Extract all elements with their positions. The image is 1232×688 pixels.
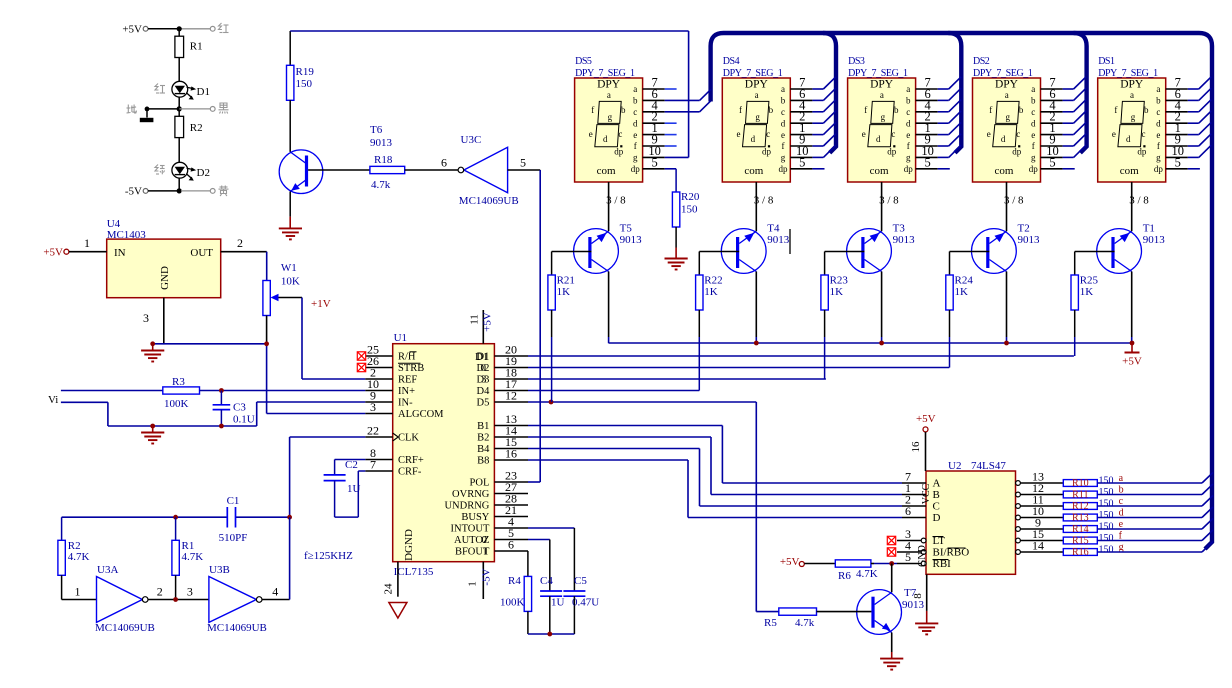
wire +5V rail — [609, 342, 1132, 344]
svg-text:C3: C3 — [233, 402, 246, 414]
wire — [178, 178, 180, 191]
svg-text:f: f — [864, 105, 867, 115]
svg-text:D2: D2 — [197, 167, 210, 179]
pin 10 — [1041, 156, 1063, 158]
svg-text:dp: dp — [887, 147, 897, 157]
pin 20 D1 — [494, 355, 528, 357]
pin 14 B2 — [494, 436, 528, 438]
svg-text:d: d — [781, 118, 786, 128]
wire collector to rail — [1006, 272, 1008, 338]
svg-text:c: c — [633, 107, 637, 117]
no-connect pin 25 — [357, 352, 365, 360]
svg-text:3 / 8: 3 / 8 — [754, 195, 774, 207]
wire to bus — [1097, 551, 1202, 553]
transistor T6 9013 — [279, 150, 323, 194]
pin 7 — [790, 88, 812, 90]
svg-text:a: a — [1005, 90, 1009, 100]
resistor R1 — [178, 29, 180, 36]
label 红 at D1 — [155, 84, 158, 91]
IC U4 MC1403 — [107, 239, 221, 298]
pin 1 -5V stub — [482, 562, 484, 599]
svg-text:1: 1 — [467, 581, 479, 587]
svg-text:DGND: DGND — [403, 529, 415, 561]
U2 output e pin 9 — [1016, 527, 1021, 532]
node junction 黑 row — [177, 106, 182, 111]
svg-text:16: 16 — [505, 447, 517, 461]
svg-text:7: 7 — [370, 458, 376, 472]
no-connect pin 26 — [357, 363, 365, 371]
wire Vi+ — [61, 390, 163, 392]
wire base to D line — [698, 310, 700, 337]
wire com — [755, 182, 757, 231]
pin 1 — [916, 134, 938, 136]
pin 4 — [1166, 111, 1188, 113]
node junction RBI/R6/T7 — [889, 561, 894, 566]
svg-text:b: b — [621, 105, 626, 115]
svg-text:g: g — [1006, 112, 1011, 122]
svg-text:MC14069UB: MC14069UB — [207, 622, 267, 634]
pin 12 D5 — [494, 401, 528, 403]
pin 7 — [916, 88, 938, 90]
wire to bus — [1097, 517, 1202, 519]
pin 4 — [790, 111, 812, 113]
pin 8 CRF+ — [365, 459, 392, 461]
svg-text:b: b — [1019, 105, 1024, 115]
svg-text:c: c — [891, 129, 895, 139]
svg-text:e: e — [781, 130, 785, 140]
ground at Vi return — [150, 424, 155, 429]
svg-text:dp: dp — [1029, 164, 1039, 174]
svg-text:C: C — [933, 501, 940, 513]
svg-text:f: f — [591, 105, 594, 115]
svg-text:e: e — [589, 129, 593, 139]
svg-text:B4: B4 — [477, 444, 490, 455]
svg-text:9013: 9013 — [1143, 234, 1166, 246]
svg-text:b: b — [1156, 96, 1161, 106]
resistor R21 1K — [551, 252, 553, 276]
svg-text:150: 150 — [681, 204, 698, 216]
pin 10 IN+ — [365, 390, 392, 392]
earth ground triangle at pin 24 — [389, 603, 407, 619]
svg-text:CLK: CLK — [398, 433, 419, 444]
U2 pin 2 C — [902, 505, 926, 507]
svg-text:4.7k: 4.7k — [795, 617, 815, 629]
svg-text:9013: 9013 — [370, 137, 393, 149]
svg-text:14: 14 — [1032, 539, 1044, 553]
node junction +5V/R1 — [177, 26, 182, 31]
svg-text:dp: dp — [631, 164, 641, 174]
svg-text:1: 1 — [84, 236, 90, 250]
resistor R12 150 — [1063, 503, 1097, 510]
pin 4 — [916, 111, 938, 113]
svg-text:4.7K: 4.7K — [68, 551, 90, 563]
svg-text:R14: R14 — [1072, 524, 1089, 535]
svg-text:6: 6 — [441, 156, 447, 170]
svg-text:9013: 9013 — [1018, 234, 1041, 246]
svg-text:R5: R5 — [764, 617, 777, 629]
svg-text:dp: dp — [1154, 164, 1164, 174]
resistor R22 1K — [698, 252, 700, 276]
svg-text:T3: T3 — [893, 223, 906, 235]
terminal 红 (red) — [181, 28, 210, 30]
power +5V symbol — [1131, 343, 1133, 353]
svg-text:g: g — [781, 153, 786, 163]
pin 3 ALGCOM — [365, 413, 392, 415]
svg-text:150: 150 — [1099, 476, 1114, 487]
pin 9 — [790, 145, 812, 147]
pin 2 — [916, 122, 938, 124]
svg-text:2: 2 — [237, 236, 243, 250]
svg-text:dp: dp — [762, 147, 772, 157]
ground at U2 pin 8 — [915, 622, 938, 624]
pin 5 — [790, 168, 812, 170]
pin 5 — [1166, 168, 1188, 170]
svg-text:IN+: IN+ — [398, 386, 415, 397]
svg-text:DPY_7_SEG_1: DPY_7_SEG_1 — [848, 68, 908, 79]
svg-text:a: a — [906, 84, 910, 94]
svg-text:74LS47: 74LS47 — [971, 460, 1006, 472]
capacitor C4 1U — [540, 590, 562, 592]
node junction W1 bottom — [266, 316, 268, 344]
svg-text:g: g — [881, 112, 886, 122]
resistor R14 150 — [1063, 526, 1097, 533]
svg-text:+5V: +5V — [43, 247, 63, 259]
capacitor C1 510PF — [226, 507, 228, 528]
svg-text:R13: R13 — [1072, 513, 1089, 524]
svg-text:+5V: +5V — [780, 556, 800, 568]
U2 pin 3 LT — [921, 538, 926, 543]
svg-text:GND: GND — [917, 545, 928, 567]
svg-text:R1: R1 — [190, 41, 203, 53]
pin 4 — [1041, 111, 1063, 113]
display DS3 DPY_7_SEG_1 — [848, 78, 916, 182]
wire CLK — [290, 436, 366, 438]
svg-text:3 / 8: 3 / 8 — [1004, 195, 1024, 207]
svg-text:U3A: U3A — [97, 564, 118, 576]
svg-text:A: A — [933, 478, 941, 490]
pin 9 — [1041, 145, 1063, 147]
svg-text:9013: 9013 — [893, 234, 916, 246]
svg-text:a: a — [781, 84, 785, 94]
resistor R2 — [175, 116, 184, 137]
svg-text:100K: 100K — [164, 398, 189, 410]
svg-text:5: 5 — [1175, 155, 1181, 169]
pin 6 — [1166, 99, 1188, 101]
resistor R15 150 — [1063, 537, 1097, 544]
wire U3B out feedback — [262, 599, 290, 601]
DS5 pin 9 — [643, 145, 665, 147]
wire D1 net — [528, 355, 1074, 357]
pin 11 +5V stub — [482, 310, 484, 344]
transistor T2 9013 — [972, 229, 1017, 274]
svg-text:R22: R22 — [704, 275, 722, 287]
svg-text:BUSY: BUSY — [461, 512, 489, 523]
svg-text:OVRNG: OVRNG — [452, 489, 490, 500]
node junction T4 — [754, 341, 759, 346]
svg-text:R20: R20 — [681, 191, 700, 203]
svg-text:c: c — [1156, 107, 1160, 117]
svg-text:f: f — [1157, 141, 1160, 151]
pin 10 — [790, 156, 812, 158]
svg-text:INTOUT: INTOUT — [451, 524, 490, 535]
inverter U3A MC14069UB — [97, 577, 143, 623]
svg-text:R11: R11 — [1072, 490, 1088, 501]
svg-text:3: 3 — [481, 374, 487, 386]
svg-text:U2: U2 — [948, 460, 961, 472]
wire Vi- — [61, 401, 108, 403]
U2 pin 8 GND wire — [926, 574, 928, 611]
svg-text:150: 150 — [1099, 510, 1114, 521]
svg-text:22: 22 — [367, 424, 379, 438]
wire — [178, 138, 180, 163]
DS5 pin 10 — [643, 156, 665, 158]
wire IN- — [257, 401, 366, 403]
svg-text:c: c — [766, 129, 770, 139]
wire D3 net — [528, 378, 826, 380]
svg-text:3: 3 — [143, 311, 149, 325]
svg-text:1K: 1K — [557, 286, 571, 298]
wire AUTOZ to C4 — [528, 539, 550, 541]
U2 pin 6 D — [902, 517, 926, 519]
U2 pin 4 BI/RBO — [921, 550, 926, 555]
U2 pin 5 RBI — [921, 561, 926, 566]
svg-text:e: e — [987, 129, 991, 139]
svg-text:b: b — [1144, 105, 1149, 115]
wire collector to rail — [1131, 272, 1133, 338]
DS5 stub d — [665, 122, 677, 124]
wire B4 to C — [528, 448, 700, 450]
U2 output b pin 12 — [1016, 492, 1021, 497]
node junction T3 — [879, 341, 884, 346]
DS5 pin 7 — [643, 88, 665, 90]
svg-text:REF: REF — [398, 375, 417, 386]
wire base to D line — [551, 310, 553, 337]
svg-text:f: f — [739, 105, 742, 115]
pin 16 B8 — [494, 459, 528, 461]
svg-text:com: com — [870, 165, 889, 177]
svg-text:R10: R10 — [1072, 478, 1089, 489]
svg-text:b: b — [906, 96, 911, 106]
wire R5 to T7 base — [817, 611, 872, 613]
svg-text:a: a — [755, 90, 759, 100]
svg-text:ALGCOM: ALGCOM — [398, 409, 444, 420]
svg-text:d: d — [1126, 134, 1131, 144]
svg-text:g: g — [906, 153, 911, 163]
bus main — [711, 33, 1212, 549]
resistor R11 150 — [1063, 491, 1097, 498]
wire D4 net — [528, 390, 699, 392]
wire D2 net — [528, 367, 949, 369]
svg-text:B: B — [933, 489, 940, 501]
pin 27 OVRNG — [494, 493, 528, 495]
capacitor C2 1U — [335, 459, 366, 461]
clock symbol on CLK — [393, 433, 399, 441]
svg-text:100K: 100K — [500, 597, 525, 609]
svg-text:0: 0 — [482, 534, 488, 546]
svg-text:2: 2 — [157, 585, 163, 599]
svg-text:c: c — [1016, 129, 1020, 139]
svg-text:dp: dp — [614, 147, 624, 157]
DS5 stub a — [665, 88, 677, 90]
ground rail under U4 — [153, 343, 268, 345]
wire R18 to U3C — [405, 169, 458, 171]
bus drop — [948, 33, 961, 153]
inverter U3C MC14069UB — [464, 147, 508, 192]
wire ALGCOM — [267, 413, 366, 415]
svg-text:e: e — [1031, 130, 1035, 140]
svg-text:0.1U: 0.1U — [233, 414, 255, 426]
svg-text:DS2: DS2 — [973, 56, 990, 67]
svg-text:MC14069UB: MC14069UB — [459, 195, 519, 207]
resistor R1 4.7K — [175, 517, 177, 540]
wire oscillator top rail — [62, 516, 228, 518]
svg-text:dp: dp — [1012, 147, 1022, 157]
label 红 top right — [219, 23, 222, 30]
pin 2 wire to W1 — [221, 251, 267, 253]
svg-text:C4: C4 — [540, 575, 553, 587]
pin 1 — [1041, 134, 1063, 136]
svg-text:3: 3 — [187, 585, 193, 599]
stray mark — [789, 229, 791, 254]
node junction R1 bottom — [173, 597, 178, 602]
wire base to D line — [824, 310, 826, 337]
display DS1 DPY_7_SEG_1 — [1098, 78, 1166, 182]
terminal 黄 (yellow) — [181, 190, 210, 192]
svg-text:T7: T7 — [904, 587, 917, 599]
svg-text:d: d — [751, 134, 756, 144]
svg-text:1K: 1K — [830, 286, 844, 298]
U2 output c pin 11 — [1016, 504, 1021, 509]
pin 5 — [1041, 168, 1063, 170]
svg-text:d: d — [876, 134, 881, 144]
svg-text:d: d — [633, 118, 638, 128]
IC U2 74LS47 — [926, 471, 1016, 574]
svg-text:a: a — [1130, 90, 1134, 100]
wire to bus — [1097, 482, 1202, 484]
svg-text:DPY_7_SEG_1: DPY_7_SEG_1 — [575, 68, 635, 79]
svg-text:a: a — [1031, 84, 1035, 94]
resistor R20 150 — [672, 192, 679, 227]
wire base to D line — [949, 310, 951, 337]
svg-text:d: d — [1001, 134, 1006, 144]
svg-text:f: f — [907, 141, 910, 151]
capacitor C3 0.1U — [220, 391, 222, 405]
svg-text:D4: D4 — [477, 386, 491, 397]
wire — [178, 97, 180, 116]
resistor R2 4.7K — [61, 517, 63, 540]
resistor R16 150 — [1063, 549, 1097, 556]
svg-text:g: g — [1131, 112, 1136, 122]
svg-text:d: d — [1156, 118, 1161, 128]
svg-text:150: 150 — [1099, 545, 1114, 556]
svg-text:g: g — [1156, 153, 1161, 163]
svg-text:D1: D1 — [475, 351, 488, 363]
LED D1 — [172, 81, 188, 97]
svg-text:f: f — [989, 105, 992, 115]
svg-text:11: 11 — [469, 314, 481, 325]
svg-text:12: 12 — [505, 389, 517, 403]
pin 7 CRF- — [365, 470, 392, 472]
wire R19 top to DS5 g — [290, 30, 688, 32]
wire com — [881, 182, 883, 231]
svg-text:CRF-: CRF- — [398, 467, 422, 478]
wire base to D line — [1074, 310, 1076, 337]
pin 5 AUTOZ — [494, 539, 528, 541]
pin 4 INTOUT — [494, 527, 528, 529]
pin 26 STRB — [365, 367, 392, 369]
pin 23 POL — [494, 481, 528, 483]
svg-text:R/H: R/H — [398, 352, 416, 363]
no-connect BI/RBO — [887, 548, 895, 556]
wire to bus — [1097, 540, 1202, 542]
pin 6 — [1041, 99, 1063, 101]
resistor R24 1K — [949, 252, 951, 276]
pin 5 — [916, 168, 938, 170]
pin 2 — [790, 122, 812, 124]
DS5 stub e — [665, 134, 677, 136]
svg-text:24: 24 — [382, 583, 394, 595]
svg-text:R12: R12 — [1072, 501, 1089, 512]
svg-text:9013: 9013 — [620, 234, 643, 246]
node junction C3 bottom — [219, 424, 224, 429]
wire U3C input pin 5 — [508, 169, 541, 171]
pin 2 — [1166, 122, 1188, 124]
svg-text:DS1: DS1 — [1098, 56, 1115, 67]
svg-text:C1: C1 — [227, 495, 240, 507]
svg-text:g: g — [633, 153, 638, 163]
pin 18 D3 — [494, 378, 528, 380]
resistor R6 4.7K — [804, 563, 835, 565]
svg-text:ICL7135: ICL7135 — [394, 566, 434, 578]
svg-text:U3C: U3C — [461, 134, 482, 146]
svg-text:f: f — [1032, 141, 1035, 151]
svg-text:5: 5 — [520, 156, 526, 170]
svg-text:10K: 10K — [281, 276, 300, 288]
svg-text:dp: dp — [904, 164, 914, 174]
svg-text:4.7K: 4.7K — [856, 568, 878, 580]
svg-text:b: b — [781, 96, 786, 106]
U2 output f pin 15 — [1016, 538, 1021, 543]
pin 7 — [1041, 88, 1063, 90]
svg-text:+5V: +5V — [916, 413, 936, 425]
pin 6 — [790, 99, 812, 101]
svg-text:R18: R18 — [374, 154, 393, 166]
resistor R3 100K — [163, 387, 200, 394]
wire pin5 to POL — [539, 170, 541, 482]
U2 output g pin 14 — [1016, 550, 1021, 555]
transistor T1 9013 — [1097, 229, 1142, 274]
svg-text:MC14069UB: MC14069UB — [95, 622, 155, 634]
svg-text:5: 5 — [799, 155, 805, 169]
svg-text:b: b — [769, 105, 774, 115]
LED D2 — [172, 162, 188, 178]
svg-text:g: g — [755, 112, 760, 122]
capacitor C5 0.47U — [563, 590, 585, 592]
svg-text:3: 3 — [370, 400, 376, 414]
svg-text:e: e — [633, 130, 637, 140]
pin 22 CLK — [365, 436, 392, 438]
DS5 pin 6 — [643, 99, 665, 101]
svg-text:DPY: DPY — [745, 79, 769, 91]
potentiometer W1 10K — [263, 281, 270, 316]
wire to bus — [1097, 528, 1202, 530]
DS5 pin 2 — [643, 122, 665, 124]
svg-text:1U: 1U — [551, 597, 565, 609]
label 黄 bottom right — [220, 186, 228, 188]
svg-text:IN-: IN- — [398, 398, 413, 409]
pin 2 — [1041, 122, 1063, 124]
svg-text:4: 4 — [272, 585, 278, 599]
